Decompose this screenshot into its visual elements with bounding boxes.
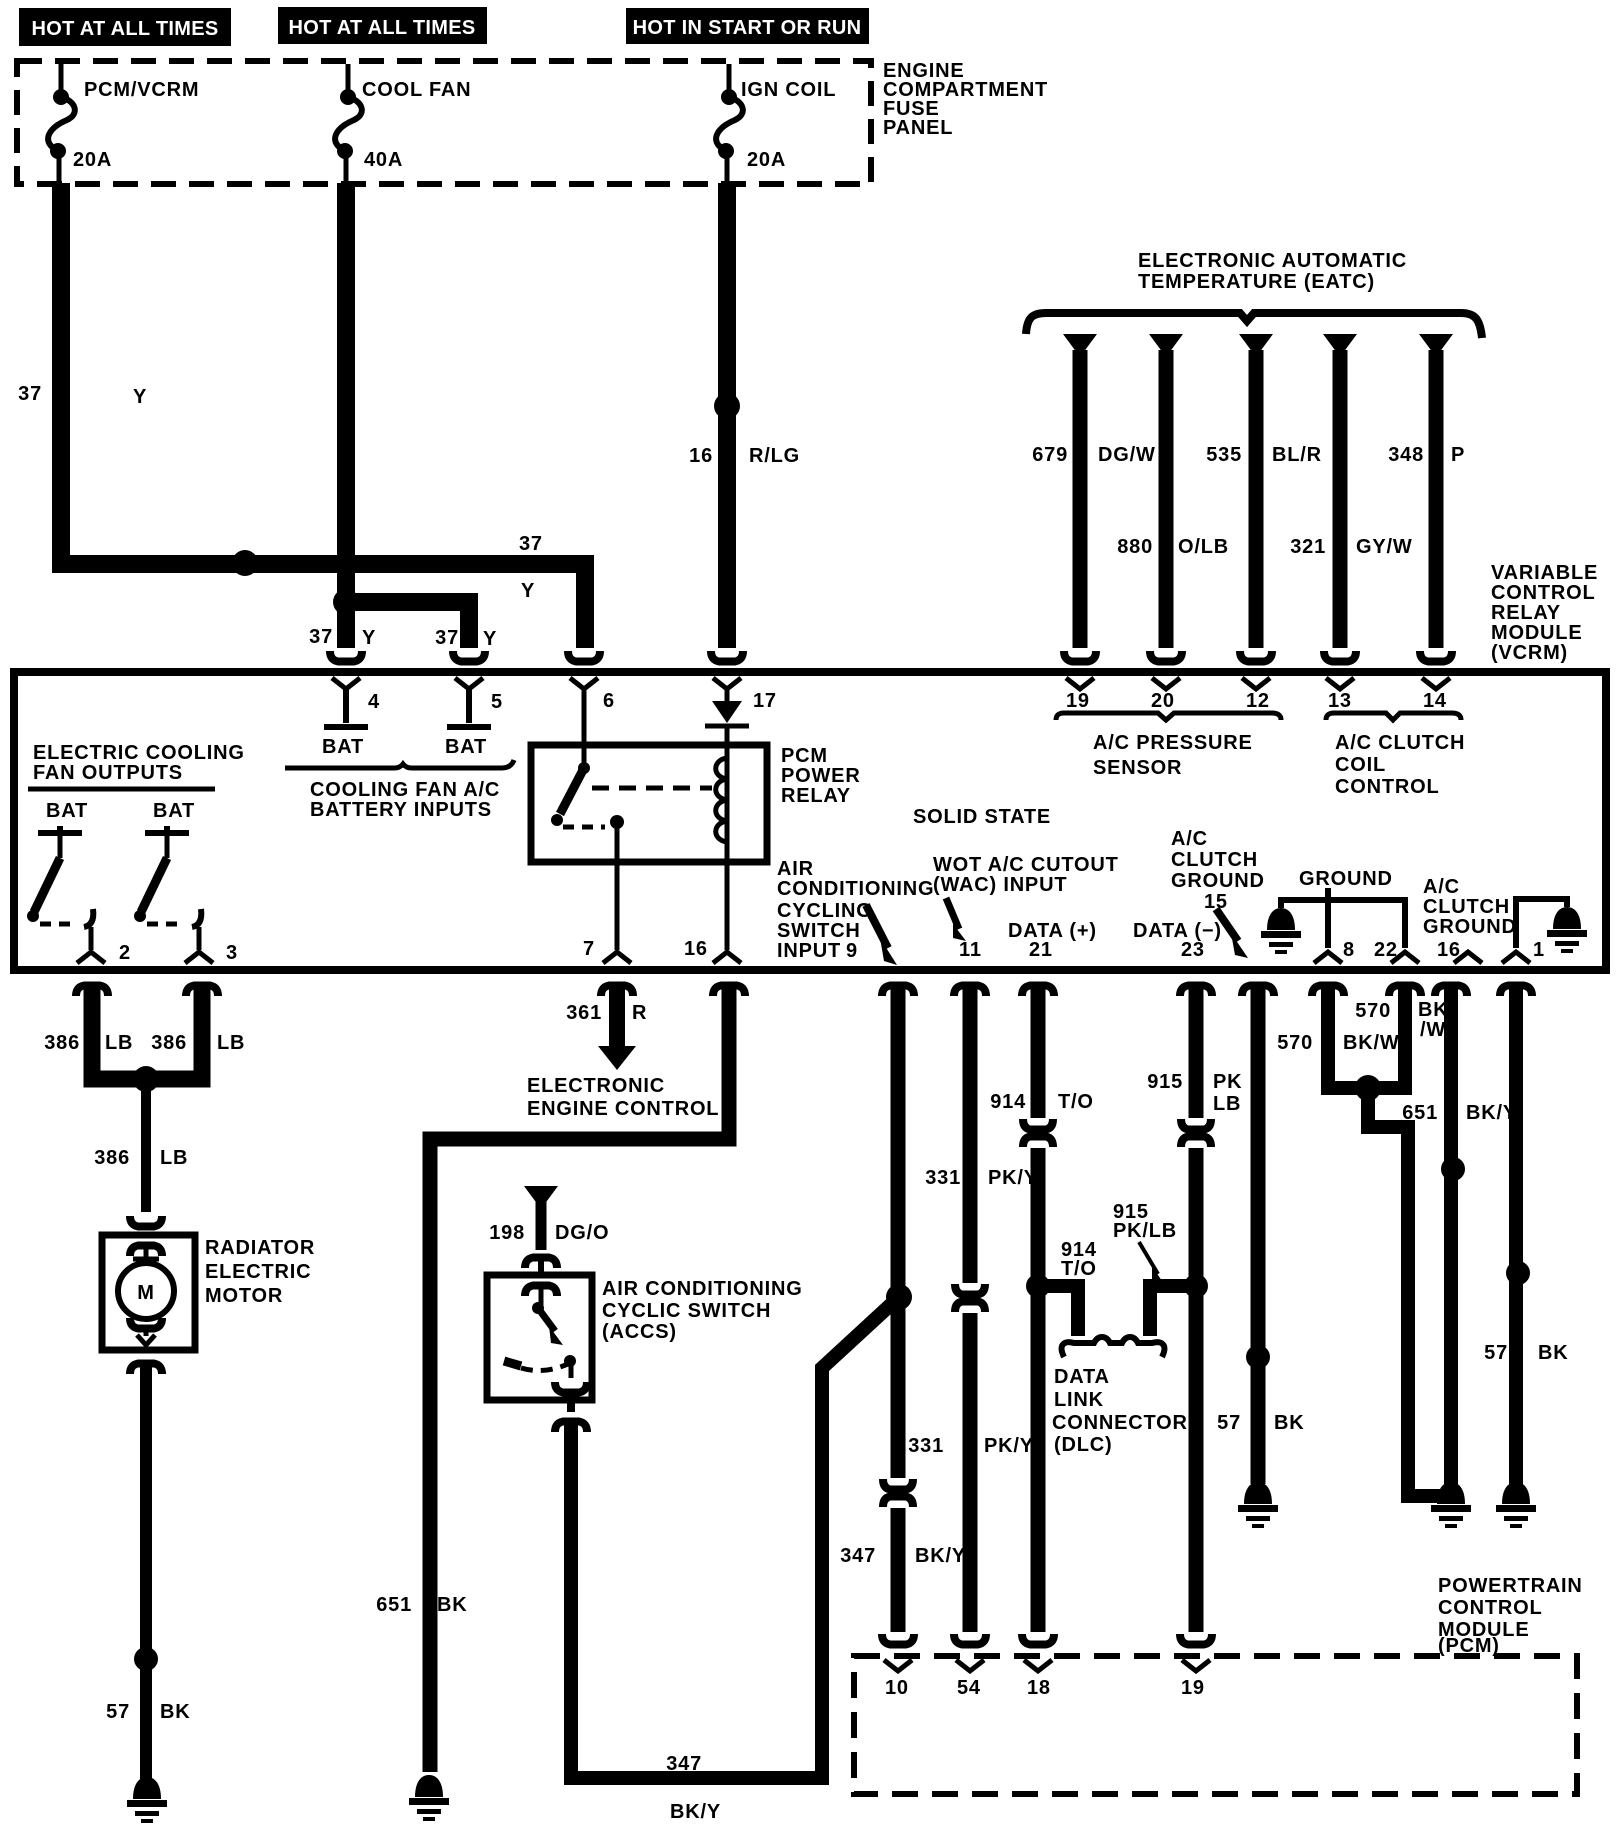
pin 5 notch <box>455 678 483 689</box>
A/C PRESSURE SENSOR label <box>1093 732 1253 779</box>
svg-text:CONTROL: CONTROL <box>1335 776 1439 798</box>
junction dot on 37 bus <box>232 550 258 576</box>
svg-text:BK: BK <box>1538 1342 1569 1364</box>
PCM pin 19 notch <box>1182 1660 1210 1671</box>
svg-text:570: 570 <box>1277 1032 1313 1054</box>
svg-text:(PCM): (PCM) <box>1438 1635 1500 1657</box>
cooling fan battery inputs label <box>310 779 500 821</box>
svg-text:BATTERY INPUTS: BATTERY INPUTS <box>310 799 492 821</box>
svg-text:RADIATOR: RADIATOR <box>205 1237 315 1259</box>
wire 386 LB from pin 3 <box>151 985 245 1079</box>
wire 37 Y from COOL FAN fuse to pin 4 <box>337 183 355 648</box>
pin 8 notch <box>1314 952 1342 963</box>
svg-text:386: 386 <box>94 1147 130 1169</box>
connector arrow into pin 17 <box>711 651 743 662</box>
wire 331 PK/Y from pin 11 to PCM pin 54 <box>908 985 1038 1645</box>
ELECTRONIC ENGINE CONTROL label <box>527 1075 719 1120</box>
svg-text:(WAC) INPUT: (WAC) INPUT <box>933 874 1067 896</box>
svg-text:SENSOR: SENSOR <box>1093 757 1182 779</box>
wire 57 BK from pin 15 to ground <box>1217 985 1304 1484</box>
svg-text:DATA: DATA <box>1054 1366 1110 1388</box>
pin 13 notch <box>1326 678 1354 689</box>
svg-text:BAT: BAT <box>445 736 487 758</box>
ground symbol (internal, left) <box>1261 908 1301 954</box>
svg-text:CLUTCH: CLUTCH <box>1423 896 1510 918</box>
pin 16 notch <box>713 952 741 963</box>
svg-text:54: 54 <box>957 1677 981 1699</box>
wire 914 T/O from pin 21 to PCM pin 18 <box>990 985 1094 1645</box>
ground (651 BK) <box>409 1775 449 1821</box>
junction dot (570 BK/W) <box>1355 1075 1381 1101</box>
relay diode (pin 17) <box>705 689 749 726</box>
svg-text:PCM: PCM <box>781 745 828 767</box>
svg-text:A/C PRESSURE: A/C PRESSURE <box>1093 732 1253 754</box>
fan output switch 1 <box>27 833 93 950</box>
svg-text:HOT AT ALL TIMES: HOT AT ALL TIMES <box>288 17 475 39</box>
svg-text:8: 8 <box>1343 939 1355 961</box>
pin 19 notch <box>1066 678 1094 689</box>
svg-text:DG/O: DG/O <box>555 1222 609 1244</box>
PCM power relay box <box>531 745 767 862</box>
svg-text:BAT: BAT <box>322 736 364 758</box>
wire 651 BK/Y from pin 16 to ground <box>1402 985 1517 1484</box>
wire 361 R from pin 7 to EEC <box>566 985 647 1070</box>
electric cooling fan outputs label <box>28 742 245 789</box>
svg-text:ELECTRIC COOLING: ELECTRIC COOLING <box>33 742 245 764</box>
svg-text:RELAY: RELAY <box>781 785 851 807</box>
svg-text:HOT AT ALL TIMES: HOT AT ALL TIMES <box>31 18 218 40</box>
svg-text:P: P <box>1451 444 1465 466</box>
EATC wire 321 GY/W to pin 13 <box>1290 334 1412 662</box>
cycling switch pointer arrow <box>866 905 897 965</box>
svg-text:Y: Y <box>521 580 535 602</box>
wire 57 BK from pin 1 to ground <box>1484 985 1568 1484</box>
POWERTRAIN CONTROL MODULE label <box>1438 1575 1583 1657</box>
air conditioning cyclic switch (ACCS) box <box>487 1275 592 1400</box>
fuse panel label <box>883 60 1048 139</box>
clutch ground 15 pointer arrow <box>1216 909 1248 958</box>
svg-text:570: 570 <box>1355 1000 1391 1022</box>
svg-text:BK: BK <box>1418 999 1449 1021</box>
pin 3 notch <box>185 952 213 963</box>
svg-text:20A: 20A <box>747 149 786 171</box>
relay dashed link <box>592 786 712 791</box>
svg-text:R: R <box>632 1002 647 1024</box>
svg-text:915: 915 <box>1147 1071 1183 1093</box>
DLC stub right 915 PK/LB <box>1113 1201 1196 1336</box>
wire 915 PK/LB from pin 23 to PCM pin 19 <box>1147 985 1242 1645</box>
svg-text:POWER: POWER <box>781 765 861 787</box>
A/C clutch ground 16 label <box>1423 876 1517 961</box>
wire 386 LB from pin 2 <box>44 985 140 1079</box>
svg-text:348: 348 <box>1388 444 1424 466</box>
EATC wire 679 DG/W to pin 19 <box>1032 334 1155 662</box>
ground (651 BK/Y) <box>1431 1482 1471 1528</box>
EATC wire 348 P to pin 14 <box>1388 334 1465 662</box>
svg-text:386: 386 <box>44 1032 80 1054</box>
svg-text:CYCLIC SWITCH: CYCLIC SWITCH <box>602 1300 771 1322</box>
svg-text:57: 57 <box>1217 1412 1241 1434</box>
svg-text:CONNECTOR: CONNECTOR <box>1052 1412 1188 1434</box>
svg-text:DG/W: DG/W <box>1098 444 1156 466</box>
svg-text:18: 18 <box>1027 1677 1051 1699</box>
pin 17 notch <box>713 678 741 689</box>
svg-text:679: 679 <box>1032 444 1068 466</box>
WOT A/C cutout label <box>933 854 1119 896</box>
svg-text:347: 347 <box>666 1753 702 1775</box>
svg-text:LB: LB <box>217 1032 245 1054</box>
svg-text:13: 13 <box>1328 690 1352 712</box>
svg-text:16: 16 <box>684 938 708 960</box>
svg-text:14: 14 <box>1423 690 1447 712</box>
svg-text:ELECTRONIC: ELECTRONIC <box>527 1075 665 1097</box>
svg-text:331: 331 <box>908 1435 944 1457</box>
svg-text:651: 651 <box>376 1594 412 1616</box>
svg-text:12: 12 <box>1246 690 1270 712</box>
branch wire to pin 5 <box>346 602 469 648</box>
svg-text:Y: Y <box>133 386 147 408</box>
connector arrow into pin 6 <box>568 651 600 662</box>
connector below ACCS <box>555 1400 587 1432</box>
svg-text:386: 386 <box>151 1032 187 1054</box>
svg-text:347: 347 <box>840 1545 876 1567</box>
svg-text:PK/Y: PK/Y <box>988 1167 1038 1189</box>
pin 14 notch <box>1422 678 1450 689</box>
svg-text:PCM/VCRM: PCM/VCRM <box>84 79 199 101</box>
BAT input terminal (pin 4) <box>322 689 368 758</box>
svg-text:BK/Y: BK/Y <box>915 1545 966 1567</box>
connector arrow into pin 5 <box>453 651 485 662</box>
wire 570 BK/W from pin 22 <box>1355 985 1448 1088</box>
svg-text:LB: LB <box>1213 1093 1241 1115</box>
wire 570 BK/W from pin 8 <box>1277 985 1399 1088</box>
svg-text:37: 37 <box>519 533 543 555</box>
relay coil <box>716 726 727 950</box>
svg-text:57: 57 <box>1484 1342 1508 1364</box>
svg-text:361: 361 <box>566 1002 602 1024</box>
pin 20 notch <box>1152 678 1180 689</box>
pin 22 notch <box>1391 952 1419 963</box>
svg-text:(VCRM): (VCRM) <box>1491 642 1568 664</box>
svg-text:(DLC): (DLC) <box>1054 1434 1112 1456</box>
radiator electric motor <box>102 1235 195 1350</box>
svg-text:BK: BK <box>1274 1412 1305 1434</box>
PCM pin 10 notch <box>884 1660 912 1671</box>
ground (pin 15) <box>1238 1482 1278 1528</box>
svg-text:23: 23 <box>1181 939 1205 961</box>
svg-text:ELECTRONIC AUTOMATIC: ELECTRONIC AUTOMATIC <box>1138 250 1407 272</box>
svg-text:MODULE: MODULE <box>1491 622 1582 644</box>
svg-text:Y: Y <box>362 627 376 649</box>
ground symbol (internal, right) <box>1547 907 1587 953</box>
wire 347 BK/Y from ACCS to pin 9 wire <box>571 1297 899 1823</box>
svg-text:A/C CLUTCH: A/C CLUTCH <box>1335 732 1465 754</box>
svg-text:20A: 20A <box>73 149 112 171</box>
svg-text:COIL: COIL <box>1335 754 1386 776</box>
ground bracket pins 8/22 <box>1281 888 1405 948</box>
svg-text:ENGINE CONTROL: ENGINE CONTROL <box>527 1098 719 1120</box>
A/C CLUTCH COIL CONTROL label <box>1335 732 1465 798</box>
svg-text:O/LB: O/LB <box>1178 536 1229 558</box>
power label HOT AT ALL TIMES (left) <box>19 8 231 46</box>
svg-text:914: 914 <box>990 1091 1026 1113</box>
wire 331/347 from pin 9 to PCM pin 10 <box>840 985 966 1645</box>
svg-text:GROUND: GROUND <box>1299 868 1393 890</box>
svg-text:SWITCH: SWITCH <box>777 920 861 942</box>
svg-text:PK/LB: PK/LB <box>1113 1220 1177 1242</box>
svg-text:321: 321 <box>1290 536 1326 558</box>
pin 12 notch <box>1242 678 1270 689</box>
svg-text:TEMPERATURE (EATC): TEMPERATURE (EATC) <box>1138 271 1375 293</box>
ACCS switch <box>504 1286 587 1393</box>
svg-text:9: 9 <box>846 940 858 962</box>
A/C pressure sensor bracket <box>1056 713 1281 720</box>
svg-text:PK/Y: PK/Y <box>984 1435 1034 1457</box>
wire 16 R/LG from IGN COIL fuse to pin 17 <box>718 183 736 648</box>
wire 386 LB to radiator motor <box>94 1079 188 1227</box>
svg-text:T/O: T/O <box>1061 1258 1097 1280</box>
svg-text:WOT A/C CUTOUT: WOT A/C CUTOUT <box>933 854 1119 876</box>
fan output switch 2 <box>134 833 201 950</box>
DATA LINK CONNECTOR (DLC) label <box>1052 1366 1188 1456</box>
powertrain control module (PCM) dashed box <box>854 1656 1577 1794</box>
svg-text:VARIABLE: VARIABLE <box>1491 562 1598 584</box>
connector below motor <box>130 1364 162 1375</box>
A/C clutch ground 15 label <box>1171 828 1265 913</box>
svg-text:BAT: BAT <box>153 800 195 822</box>
pin 4 notch <box>332 678 360 689</box>
svg-text:37: 37 <box>309 626 333 648</box>
svg-text:1: 1 <box>1533 939 1545 961</box>
svg-text:19: 19 <box>1066 690 1090 712</box>
ACCS label <box>602 1278 803 1343</box>
svg-text:PANEL: PANEL <box>883 117 953 139</box>
svg-text:A/C: A/C <box>1171 828 1208 850</box>
svg-text:CONTROL: CONTROL <box>1438 1597 1542 1619</box>
svg-text:AIR CONDITIONING: AIR CONDITIONING <box>602 1278 803 1300</box>
svg-text:CONTROL: CONTROL <box>1491 582 1595 604</box>
svg-text:BK/Y: BK/Y <box>670 1801 721 1823</box>
svg-text:4: 4 <box>368 691 380 713</box>
PCM pin 54 notch <box>956 1660 984 1671</box>
WOT pointer arrow <box>946 898 966 941</box>
svg-text:GY/W: GY/W <box>1356 536 1413 558</box>
svg-text:10: 10 <box>885 1677 909 1699</box>
svg-text:CLUTCH: CLUTCH <box>1171 849 1258 871</box>
ground (pin 1 / 57 BK) <box>1496 1482 1536 1528</box>
svg-text:T/O: T/O <box>1058 1091 1094 1113</box>
junction dot (cool fan branch) <box>333 589 359 615</box>
svg-text:FAN OUTPUTS: FAN OUTPUTS <box>33 762 183 784</box>
svg-text:/W: /W <box>1420 1019 1446 1041</box>
svg-text:37: 37 <box>435 627 459 649</box>
svg-text:PK: PK <box>1213 1071 1242 1093</box>
svg-text:6: 6 <box>603 690 615 712</box>
wire 651 BK from pin 16 to ground <box>376 985 745 1772</box>
BAT input terminal (pin 5) <box>445 689 491 758</box>
air conditioning cycling switch input label <box>777 858 934 962</box>
junction dot (pin 9 wire) <box>886 1284 912 1310</box>
svg-text:AIR: AIR <box>777 858 814 880</box>
PCM pin 18 notch <box>1024 1660 1052 1671</box>
fuse COOL FAN 40A <box>335 64 471 184</box>
svg-text:17: 17 <box>753 690 777 712</box>
svg-text:GROUND: GROUND <box>1171 870 1265 892</box>
svg-text:COOLING FAN A/C: COOLING FAN A/C <box>310 779 500 801</box>
svg-text:GROUND: GROUND <box>1423 916 1517 938</box>
svg-text:CYCLING: CYCLING <box>777 900 873 922</box>
svg-text:22: 22 <box>1374 939 1398 961</box>
svg-text:16: 16 <box>689 445 713 467</box>
ground (radiator motor) <box>127 1777 167 1823</box>
power label HOT AT ALL TIMES (center) <box>278 7 487 44</box>
svg-text:BK/W: BK/W <box>1343 1032 1400 1054</box>
svg-text:ELECTRIC: ELECTRIC <box>205 1261 311 1283</box>
svg-text:535: 535 <box>1206 444 1242 466</box>
pin 2 notch <box>77 952 105 963</box>
pin 7 notch <box>603 952 631 963</box>
pin 6 notch <box>570 678 598 689</box>
svg-text:2: 2 <box>119 942 131 964</box>
svg-text:R/LG: R/LG <box>749 445 800 467</box>
svg-text:COOL FAN: COOL FAN <box>362 79 471 101</box>
svg-text:BK: BK <box>437 1594 468 1616</box>
EATC wire 535 BL/R to pin 12 <box>1206 334 1322 662</box>
junction dot (386 LB) <box>133 1066 159 1092</box>
wire 37 Y from PCM/VCRM fuse to pin 6 <box>61 183 585 648</box>
relay switch (from pin 6) <box>551 689 624 950</box>
wire 570 jog to ground <box>1368 1092 1444 1496</box>
svg-text:IGN COIL: IGN COIL <box>741 79 836 101</box>
svg-text:BL/R: BL/R <box>1272 444 1322 466</box>
svg-text:(ACCS): (ACCS) <box>602 1321 677 1343</box>
junction dot on R/LG wire <box>714 393 740 419</box>
cooling fan battery inputs bracket <box>285 760 514 768</box>
DLC stub left 914 T/O <box>1038 1239 1097 1336</box>
engine compartment fuse panel (dashed box) <box>17 61 871 184</box>
svg-text:5: 5 <box>491 691 503 713</box>
EATC bracket <box>1026 313 1482 338</box>
svg-text:21: 21 <box>1029 939 1053 961</box>
svg-text:CONDITIONING: CONDITIONING <box>777 878 934 900</box>
pin 1 ground bracket <box>1516 899 1567 948</box>
wire 198 DG/O into ACCS <box>489 1186 609 1275</box>
fuse PCM/VCRM 20A <box>48 64 199 184</box>
junction dot (pin 23 wire, DLC tap) <box>1184 1274 1208 1298</box>
svg-text:MOTOR: MOTOR <box>205 1285 283 1307</box>
svg-text:880: 880 <box>1117 536 1153 558</box>
svg-text:INPUT: INPUT <box>777 940 841 962</box>
svg-text:11: 11 <box>959 939 982 961</box>
svg-text:RELAY: RELAY <box>1491 602 1561 624</box>
svg-text:198: 198 <box>489 1222 525 1244</box>
svg-text:20: 20 <box>1151 690 1175 712</box>
RADIATOR ELECTRIC MOTOR label <box>205 1237 315 1307</box>
A/C clutch coil bracket <box>1326 713 1461 720</box>
svg-text:Y: Y <box>483 628 497 650</box>
svg-text:LB: LB <box>160 1147 188 1169</box>
svg-text:M: M <box>137 1282 154 1304</box>
svg-text:HOT IN START OR RUN: HOT IN START OR RUN <box>633 17 862 39</box>
svg-text:LINK: LINK <box>1054 1389 1104 1411</box>
PCM POWER RELAY label <box>781 745 861 807</box>
svg-text:651: 651 <box>1402 1102 1438 1124</box>
svg-text:BAT: BAT <box>46 800 88 822</box>
connector arrow into pin 4 <box>330 651 362 662</box>
svg-text:3: 3 <box>226 942 238 964</box>
EATC wire 880 O/LB to pin 20 <box>1117 334 1229 662</box>
svg-text:40A: 40A <box>364 149 403 171</box>
svg-text:57: 57 <box>106 1701 130 1723</box>
junction dot (pin 21 wire, DLC tap) <box>1026 1274 1050 1298</box>
EATC label <box>1138 250 1407 293</box>
pin 16 (clutch ground) notch <box>1454 952 1482 963</box>
svg-text:BK: BK <box>160 1701 191 1723</box>
svg-text:LB: LB <box>105 1032 133 1054</box>
svg-text:SOLID STATE: SOLID STATE <box>913 806 1051 828</box>
svg-text:DATA (−): DATA (−) <box>1133 920 1222 942</box>
data link connector symbol <box>1062 1337 1165 1357</box>
fuse IGN COIL 20A <box>716 64 836 184</box>
svg-text:A/C: A/C <box>1423 876 1460 898</box>
wire 57 BK from motor to ground <box>106 1365 190 1780</box>
svg-text:POWERTRAIN: POWERTRAIN <box>1438 1575 1583 1597</box>
svg-text:37: 37 <box>18 383 42 405</box>
VCRM label <box>1491 562 1598 664</box>
BAT terminal (fan output 1) <box>38 800 88 833</box>
BAT terminal (fan output 2) <box>145 800 195 833</box>
svg-text:19: 19 <box>1181 1677 1205 1699</box>
svg-text:7: 7 <box>583 938 595 960</box>
VCRM module box <box>14 672 1606 970</box>
power label HOT IN START OR RUN <box>626 8 869 44</box>
pin 1 notch <box>1502 952 1530 963</box>
svg-text:331: 331 <box>925 1167 961 1189</box>
